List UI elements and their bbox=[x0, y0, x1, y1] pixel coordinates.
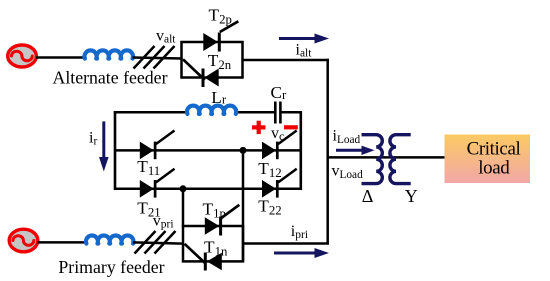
junction node row2 bbox=[180, 185, 187, 192]
junction node row1 bbox=[240, 147, 247, 154]
AC source G2 (primary feeder) bbox=[9, 229, 38, 252]
svg-text:Critical: Critical bbox=[467, 138, 521, 159]
resonant loop top wire (Lr to Cr) bbox=[236, 111, 276, 114]
thyristor T1p bbox=[205, 205, 240, 236]
inductor Lr bbox=[187, 106, 236, 114]
wire inductor to T1 box bbox=[133, 242, 183, 243]
loop left vertical wire bbox=[114, 111, 117, 190]
row2 wire bbox=[115, 188, 301, 191]
transformer primary winding (delta) bbox=[362, 135, 383, 184]
AC source G1 (alternate feeder) bbox=[8, 45, 37, 67]
arrow i_r bbox=[99, 121, 109, 171]
thyristor T12 bbox=[262, 131, 297, 160]
wire T2 box to bus bbox=[243, 59, 330, 62]
thyristor T1n bbox=[185, 244, 222, 271]
inductor alternate feeder bbox=[85, 50, 133, 58]
wire row2 node down to T1 box bbox=[182, 189, 185, 227]
row1 wire bbox=[115, 149, 301, 152]
wire inductor to T2 box bbox=[133, 58, 182, 59]
T2 thyristor box bbox=[182, 42, 243, 78]
arrow i_pri bbox=[274, 248, 329, 258]
arrow i_alt bbox=[279, 34, 329, 44]
inductor primary feeder bbox=[86, 236, 133, 244]
main bus (right vertical) bbox=[326, 59, 329, 244]
svg-text:Y: Y bbox=[405, 186, 418, 206]
capacitor Cr bbox=[275, 102, 280, 124]
plus sign (red) bbox=[252, 121, 266, 134]
arrow i_Load bbox=[336, 146, 375, 155]
loop right vertical wire bbox=[299, 111, 302, 190]
svg-text:Δ: Δ bbox=[362, 186, 374, 206]
wire row1 node down to T1 box bbox=[242, 150, 245, 261]
svg-text:load: load bbox=[478, 158, 510, 179]
wire T1 box to bus bbox=[243, 242, 329, 245]
three-phase slashes (alternate) bbox=[134, 46, 175, 69]
transformer secondary winding (wye) bbox=[390, 135, 411, 184]
wire G2 to inductor bbox=[38, 241, 88, 244]
resonant loop top wire (right of Cr) bbox=[280, 111, 302, 114]
thyristor T21 bbox=[140, 169, 175, 198]
minus sign (red) bbox=[284, 125, 298, 129]
wire G1 to inductor bbox=[36, 56, 85, 59]
thyristor T11 bbox=[140, 131, 175, 160]
resonant loop top wire (left of Lr) bbox=[114, 111, 188, 114]
svg-text:Primary feeder: Primary feeder bbox=[58, 257, 164, 277]
svg-text:Alternate feeder: Alternate feeder bbox=[52, 68, 167, 88]
wire bus to transformer and load bbox=[328, 156, 445, 159]
thyristor T2p bbox=[203, 21, 238, 51]
three-phase slashes (primary) bbox=[135, 231, 176, 254]
thyristor T2n bbox=[183, 59, 219, 87]
T1 thyristor box bbox=[183, 226, 243, 261]
thyristor T22 bbox=[262, 169, 297, 198]
